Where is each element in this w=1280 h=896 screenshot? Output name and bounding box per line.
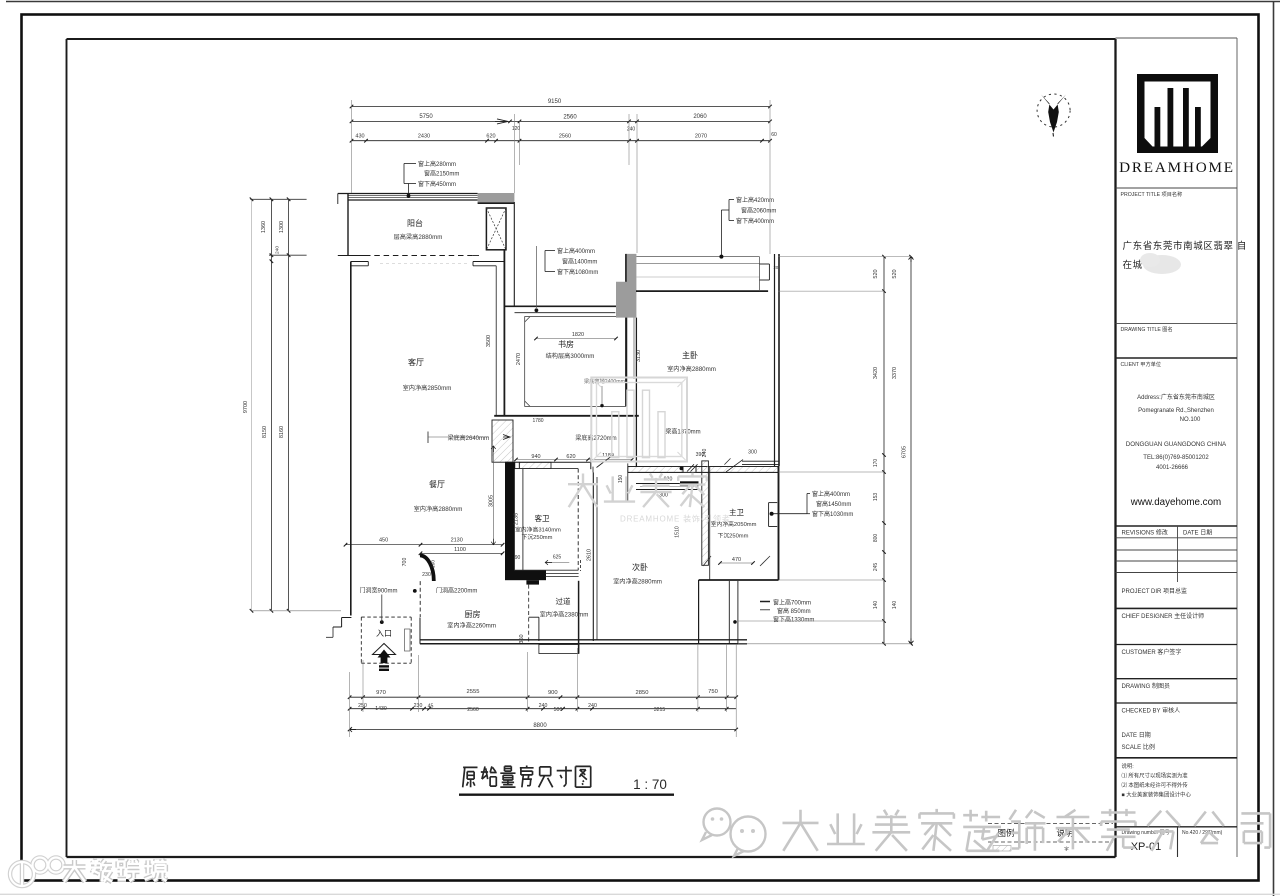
entrance dashed outline [361, 616, 411, 618]
bottom watermark large text [783, 810, 819, 851]
study right wall [625, 306, 627, 406]
svg-text:153: 153 [873, 493, 879, 502]
hall right wall / bedroom2 left wall [592, 472, 594, 641]
svg-text:PROJECT DIR 项目总监: PROJECT DIR 项目总监 [1122, 587, 1188, 595]
living room bottom-left wall [342, 617, 352, 619]
svg-text:4001-26666: 4001-26666 [1156, 465, 1189, 471]
bottom-left watermark text DaShuKuaJing [64, 860, 86, 882]
checked by row [1116, 702, 1238, 704]
dim 450 2130 line [346, 544, 503, 546]
entrance arrow (entry symbol) [373, 644, 396, 655]
master window right return [759, 257, 761, 292]
wall between guest bath and hall [545, 573, 579, 575]
svg-text:2470: 2470 [516, 353, 522, 365]
svg-text:245: 245 [873, 563, 879, 572]
svg-text:970: 970 [376, 690, 386, 696]
door swing leaf corridor to bedroom 2 [597, 455, 614, 468]
svg-text:阳台: 阳台 [407, 218, 423, 228]
hall bottom step [539, 645, 579, 654]
svg-text:3215: 3215 [654, 707, 666, 713]
svg-text:CLIENT 甲方单位: CLIENT 甲方单位 [1121, 360, 1162, 368]
svg-text:⑵ 本图纸未经许可不得外传: ⑵ 本图纸未经许可不得外传 [1122, 781, 1189, 789]
svg-text:60: 60 [771, 132, 777, 138]
kitchen-hall divider dashed [528, 585, 530, 644]
black wall L between kitchen and bath [505, 463, 515, 571]
hall left corner walls [529, 616, 539, 618]
kitchen left dashed boundary [419, 581, 421, 617]
hall door dashed [580, 560, 582, 571]
bottom watermark wechat icon [702, 809, 766, 857]
svg-text:DRAWING TITLE 图名: DRAWING TITLE 图名 [1121, 325, 1173, 333]
svg-text:9150: 9150 [548, 99, 562, 105]
guest bathroom floor [522, 469, 524, 571]
dim 1100 line [421, 552, 503, 554]
hall right wall [578, 581, 580, 654]
svg-text:520: 520 [873, 269, 879, 278]
svg-text:230: 230 [422, 572, 431, 578]
bottom chain row 1 [350, 696, 737, 698]
entry threshold small rect [405, 629, 411, 651]
svg-text:DONGGUAN GUANGDONG CHINA: DONGGUAN GUANGDONG CHINA [1126, 441, 1227, 448]
sheet outer right border [1273, 2, 1275, 896]
bed head wall lines in bedroom2 [636, 483, 699, 485]
svg-text:500: 500 [554, 707, 563, 713]
svg-text:窗下高1330mm: 窗下高1330mm [773, 616, 814, 624]
window on master bath right wall [769, 502, 778, 504]
svg-text:900: 900 [548, 690, 558, 696]
hatched wall block left of corridor [492, 420, 513, 462]
sheet title: original site-measurement plan [463, 767, 478, 787]
master bedroom top window [636, 256, 759, 258]
svg-text:DATE 日期: DATE 日期 [1122, 731, 1151, 739]
svg-text:室内净高2880mm: 室内净高2880mm [667, 365, 716, 373]
svg-text:3370: 3370 [892, 367, 898, 379]
svg-text:9700: 9700 [243, 401, 249, 413]
svg-text:主卫: 主卫 [729, 507, 744, 517]
kitchen door swing arc black [420, 555, 434, 581]
svg-text:90: 90 [515, 555, 521, 561]
living room top wall [351, 261, 369, 263]
window junction dot on balcony window [407, 194, 411, 198]
chief designer row [1116, 607, 1238, 609]
left chain extension lines [250, 198, 306, 200]
svg-text:2070: 2070 [695, 134, 707, 140]
svg-text:门洞高2200mm: 门洞高2200mm [436, 587, 477, 595]
svg-text:700: 700 [402, 558, 408, 567]
svg-text:结构层高3000mm: 结构层高3000mm [546, 352, 595, 360]
center watermark logo bars [612, 412, 619, 458]
corridor bottom wall with hatch segments [519, 462, 551, 468]
svg-text:120: 120 [512, 126, 521, 132]
master bath right wall [778, 466, 780, 580]
svg-text:150: 150 [618, 475, 624, 484]
door opening ticks on corridor wall [592, 467, 594, 473]
svg-text:室内净高2380mm: 室内净高2380mm [540, 611, 589, 619]
bottom-left watermark logo 100 [10, 858, 64, 887]
svg-text:REVISIONS 修改: REVISIONS 修改 [1122, 529, 1168, 537]
north compass needle [1041, 95, 1066, 133]
svg-text:2130: 2130 [451, 538, 463, 544]
logo bar 3 [1183, 88, 1189, 147]
shaft box with X (flue) [486, 208, 506, 250]
svg-text:240: 240 [539, 703, 548, 709]
svg-text:梁底高2640mm: 梁底高2640mm [448, 434, 489, 442]
study top wall [504, 305, 616, 307]
svg-text:窗高2060mm: 窗高2060mm [741, 207, 776, 215]
balcony left wall [347, 194, 349, 256]
svg-text:1360: 1360 [261, 221, 267, 233]
svg-text:窗下高1030mm: 窗下高1030mm [812, 510, 853, 518]
svg-text:Address:广东省东莞市南城区: Address:广东省东莞市南城区 [1137, 393, 1215, 401]
svg-text:2610: 2610 [587, 549, 593, 561]
balcony right edge wall down to study [513, 202, 515, 306]
svg-text:45: 45 [428, 704, 434, 710]
svg-text:■ 大业美家装饰集团设计中心: ■ 大业美家装饰集团设计中心 [1122, 791, 1192, 799]
svg-text:8150: 8150 [262, 426, 268, 438]
svg-text:室内净高2880mm: 室内净高2880mm [613, 578, 662, 586]
right chain extension lines [779, 256, 912, 258]
svg-text:厨房: 厨房 [465, 609, 481, 619]
bottom outer wall (kitchen to bedroom2) [420, 639, 747, 641]
svg-text:2560: 2560 [563, 115, 577, 121]
top chain row C [352, 140, 771, 142]
svg-text:窗高 850mm: 窗高 850mm [777, 607, 811, 615]
study bottom wall / corridor top wall [494, 415, 639, 417]
svg-text:CHECKED BY 审核人: CHECKED BY 审核人 [1122, 707, 1181, 715]
gray L column between study and master bedroom [616, 254, 636, 318]
svg-text:1820: 1820 [572, 332, 584, 338]
svg-text:2555: 2555 [467, 689, 480, 695]
svg-text:主卧: 主卧 [682, 350, 698, 360]
svg-text:3005: 3005 [489, 495, 495, 507]
svg-text:DREAMHOME 装饰·引领者: DREAMHOME 装饰·引领者 [620, 514, 731, 524]
inner drawing-area border [67, 38, 1116, 40]
title block row line [1116, 187, 1238, 189]
svg-text:次卧: 次卧 [632, 562, 648, 572]
svg-text:240: 240 [274, 246, 280, 254]
sunken floor corner marks [703, 556, 711, 566]
north compass circle [1037, 94, 1070, 127]
svg-text:8160: 8160 [279, 426, 285, 438]
svg-text:1510: 1510 [675, 526, 681, 538]
svg-text:140: 140 [873, 601, 879, 610]
svg-text:门洞宽900mm: 门洞宽900mm [360, 587, 398, 595]
logo bar 2 [1168, 88, 1174, 147]
svg-text:窗上高700mm: 窗上高700mm [773, 599, 811, 607]
svg-text:CHIEF DESIGNER 主任设计师: CHIEF DESIGNER 主任设计师 [1122, 612, 1205, 620]
svg-text:520: 520 [892, 269, 898, 278]
svg-text:窗上高400mm: 窗上高400mm [812, 490, 850, 498]
svg-text:450: 450 [379, 538, 388, 544]
svg-text:240: 240 [627, 127, 636, 133]
svg-text:DREAMHOME: DREAMHOME [1119, 159, 1235, 176]
svg-text:CUSTOMER 客户签字: CUSTOMER 客户签字 [1122, 648, 1182, 656]
center watermark text DaYeMeiJia [568, 474, 598, 508]
svg-text:书房: 书房 [558, 339, 574, 349]
svg-text:餐厅: 餐厅 [429, 480, 445, 489]
svg-text:800: 800 [873, 534, 879, 543]
svg-text:470: 470 [732, 557, 741, 563]
svg-text:Pomegranate Rd.,Shenzhen: Pomegranate Rd.,Shenzhen [1138, 408, 1214, 414]
svg-text:广东省东莞市南城区翡翠 自: 广东省东莞市南城区翡翠 自 [1123, 240, 1247, 252]
bottom chain extension lines [349, 672, 351, 737]
top chain total line 9150 [352, 106, 771, 108]
svg-text:750: 750 [708, 689, 718, 695]
svg-text:室内净高3140mm: 室内净高3140mm [515, 526, 561, 534]
master bedroom right outer wall [774, 254, 776, 466]
guest bathroom right dashed boundary [577, 469, 579, 571]
svg-text:梁高1870mm: 梁高1870mm [665, 428, 700, 436]
master bath walls [702, 461, 709, 565]
svg-text:窗高1400mm: 窗高1400mm [562, 258, 597, 266]
svg-text:2560: 2560 [559, 134, 571, 140]
left chain vertical lines [251, 199, 253, 611]
svg-text:300: 300 [748, 450, 757, 456]
svg-text:1100: 1100 [454, 547, 466, 553]
svg-text:在城: 在城 [1123, 259, 1143, 271]
revisions table [1116, 525, 1238, 527]
title underline [459, 794, 674, 796]
drawing title row [1116, 322, 1238, 324]
svg-text:室内净高2260mm: 室内净高2260mm [447, 622, 496, 630]
svg-text:2135: 2135 [514, 513, 520, 525]
svg-text:客厅: 客厅 [408, 357, 424, 367]
svg-text:过道: 过道 [556, 596, 571, 606]
svg-text:6705: 6705 [902, 446, 908, 458]
svg-text:3130: 3130 [636, 350, 642, 362]
svg-text:3420: 3420 [873, 367, 879, 379]
redaction blur blob [1143, 255, 1181, 274]
svg-text:室内净高2880mm: 室内净高2880mm [414, 505, 463, 513]
svg-text:240: 240 [702, 449, 708, 458]
svg-text:层高梁高2880mm: 层高梁高2880mm [394, 233, 443, 241]
svg-text:窗高2150mm: 窗高2150mm [424, 170, 459, 178]
svg-text:2850: 2850 [636, 690, 649, 696]
svg-text:下沉250mm: 下沉250mm [718, 532, 749, 540]
svg-text:⑴ 所有尺寸以现场实测为准: ⑴ 所有尺寸以现场实测为准 [1122, 772, 1189, 780]
notes row [1116, 757, 1238, 759]
svg-text:3500: 3500 [486, 335, 492, 347]
title block right edge [1236, 38, 1238, 857]
bottom chain row 2 [350, 708, 737, 710]
svg-text:625: 625 [553, 555, 562, 561]
bottom chain total row [350, 729, 737, 731]
logo bar 4 [1195, 107, 1201, 147]
svg-text:250: 250 [358, 703, 367, 709]
svg-text:窗高1450mm: 窗高1450mm [816, 500, 851, 508]
pipe shaft below master bath [728, 581, 730, 644]
svg-text:350: 350 [519, 634, 525, 643]
logo bar 1 [1155, 107, 1161, 147]
svg-text:160: 160 [431, 560, 437, 568]
svg-text:No.420 / 297(mm): No.420 / 297(mm) [1182, 830, 1223, 836]
drawing number row [1116, 826, 1238, 828]
svg-text:入口: 入口 [376, 629, 392, 638]
master bath floor left line [709, 467, 711, 580]
svg-text:室内净高2850mm: 室内净高2850mm [403, 384, 452, 392]
title block left edge [1114, 39, 1116, 857]
svg-text:1 : 70: 1 : 70 [633, 777, 667, 792]
svg-text:窗上高400mm: 窗上高400mm [557, 247, 595, 255]
svg-text:DRAWING 制图员: DRAWING 制图员 [1122, 682, 1170, 690]
living-side vertical dim 3005 line [492, 446, 494, 545]
svg-text:PROJECT TITLE 项目名称: PROJECT TITLE 项目名称 [1121, 190, 1183, 198]
balcony top-right concrete column (gray) [478, 193, 515, 203]
svg-text:620: 620 [566, 454, 575, 460]
sill lines above corridor wall right [742, 460, 779, 462]
svg-text:客卫: 客卫 [535, 513, 550, 523]
svg-text:430: 430 [355, 134, 364, 140]
svg-text:TEL:86(0)769-85001202: TEL:86(0)769-85001202 [1143, 455, 1209, 461]
svg-text:170: 170 [873, 459, 879, 468]
customer row [1116, 644, 1238, 646]
svg-text:窗下高1080mm: 窗下高1080mm [557, 268, 598, 276]
svg-text:2430: 2430 [418, 134, 430, 140]
svg-text:DATE 日期: DATE 日期 [1183, 529, 1212, 537]
svg-text:SCALE 比例: SCALE 比例 [1122, 743, 1155, 751]
svg-text:窗上高280mm: 窗上高280mm [418, 160, 456, 168]
legend dashed box [988, 823, 1113, 825]
client row [1116, 357, 1238, 359]
study room inner floor rectangle [525, 317, 626, 407]
svg-text:窗下高400mm: 窗下高400mm [736, 217, 774, 225]
svg-text:1430: 1430 [375, 706, 387, 712]
svg-text:1780: 1780 [532, 418, 543, 424]
shaft/study left walls [495, 266, 497, 416]
legend hatch sample [993, 846, 1011, 852]
svg-text:说明:: 说明: [1122, 762, 1134, 770]
svg-text:窗下高450mm: 窗下高450mm [418, 180, 456, 188]
svg-text:www.dayehome.com: www.dayehome.com [1130, 497, 1221, 508]
svg-text:下沉250mm: 下沉250mm [522, 533, 553, 541]
svg-text:1300: 1300 [279, 221, 285, 233]
right chain vertical lines [883, 257, 885, 644]
small notch at black wall top [515, 462, 520, 468]
center watermark logo square [591, 378, 687, 462]
svg-text:620: 620 [486, 134, 495, 140]
svg-text:940: 940 [531, 454, 540, 460]
svg-text:8800: 8800 [533, 723, 547, 729]
top chain extension lines [351, 100, 353, 193]
svg-text:2060: 2060 [693, 114, 707, 120]
svg-text:240: 240 [588, 703, 597, 709]
svg-text:NO.100: NO.100 [1180, 417, 1201, 423]
sheet outer top border [6, 1, 1280, 3]
svg-text:字: 字 [1064, 846, 1069, 852]
top chain row B [352, 120, 771, 122]
svg-text:230: 230 [414, 703, 423, 709]
drawing by row [1116, 678, 1238, 680]
center watermark corner cuts [593, 379, 686, 460]
balcony-living room dashed boundary [338, 255, 365, 257]
master bath bottom wall [699, 579, 779, 581]
svg-text:2560: 2560 [467, 707, 479, 713]
DREAMHOME logo square [1137, 74, 1218, 153]
balcony top window band [338, 193, 478, 195]
junction dot on study top wall [535, 308, 539, 312]
svg-text:窗上高420mm: 窗上高420mm [736, 196, 774, 204]
master bedroom left wall below column [635, 318, 637, 467]
svg-text:140: 140 [892, 601, 898, 610]
bedroom2 right wall below bath [698, 580, 700, 644]
sheet bottom faint edge [0, 893, 1280, 895]
svg-text:5750: 5750 [419, 114, 433, 120]
